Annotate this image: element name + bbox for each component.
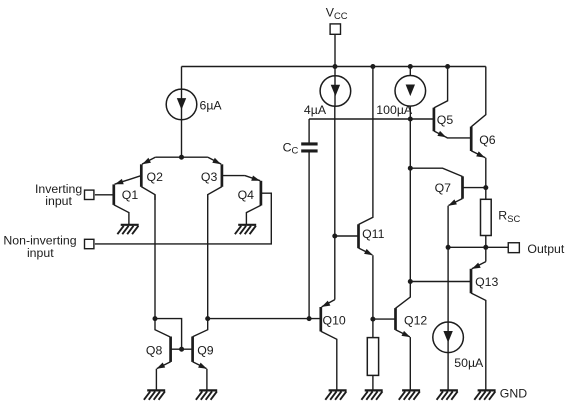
svg-text:Q7: Q7 [435,181,452,195]
svg-text:Output: Output [527,242,564,256]
svg-text:VCC: VCC [326,5,348,21]
wire top supply rail [182,66,486,68]
resistor R1 [367,338,378,376]
label Output [527,242,564,256]
svg-text:Q3: Q3 [201,170,218,184]
svg-text:100µA: 100µA [376,103,413,117]
transistor Q6 [471,67,496,200]
transistor Q10 [321,300,346,391]
wire Q8 Q9 base line [171,348,193,350]
wire resistor to ground [372,375,374,390]
transistor Q1 [114,176,142,225]
node Q9 collector junction [205,316,210,321]
label Non-inverting input [3,234,76,261]
svg-text:Q4: Q4 [238,188,255,202]
terminal Output [508,243,519,253]
wire Cc bottom to Q10 base [308,153,310,319]
svg-text:input: input [27,246,54,260]
wire Cc top [308,119,310,143]
terminal non-inverting input [85,239,94,248]
wire mirror to Q10 base [208,318,321,320]
current source I1 6uA [166,89,197,120]
label 4uA [304,103,327,117]
node Q8 collector junction [153,316,158,321]
wire rail to 6uA source [181,67,183,105]
resistor RSC [481,199,521,235]
svg-text:Q1: Q1 [122,188,139,202]
ground Q4 collector [235,225,256,234]
node 100uA base rail junction [408,117,413,122]
wire 100uA line [409,106,411,282]
wire 100uA top [409,67,411,77]
terminal inverting input [85,190,94,199]
wire Q8 collector to base [155,319,182,350]
transistor Q9 [193,319,214,391]
transistor Q7 [410,168,486,247]
svg-text:Q9: Q9 [197,343,214,357]
ground Q13 collector [474,390,495,399]
wire Q2 collector to Q8 [154,195,156,319]
node Q12 base junction [370,317,375,322]
node Cc bottom junction [307,316,312,321]
node Q7 emitter output junction [446,245,451,250]
svg-text:Q11: Q11 [362,227,384,241]
label 100uA [376,103,413,117]
wire non-inverting input to Q4 base [95,193,271,244]
svg-text:Q8: Q8 [146,343,163,357]
svg-text:input: input [45,194,72,208]
ground Q1 collector [117,225,138,234]
node input pair emitter junction [179,155,184,160]
transistor Q4 [222,176,261,225]
svg-text:Q13: Q13 [475,275,498,289]
power terminal VCC [326,5,348,34]
wire Q2 Q3 emitter rail [155,156,208,158]
svg-text:RSC: RSC [498,208,520,224]
wire output to 50uA [447,247,449,337]
wire output line [448,246,508,248]
transistor Q13 [410,247,498,390]
label Inverting input [35,182,82,208]
current source I3 100uA [395,76,426,107]
ground Q12 emitter [399,390,420,399]
wire Q5 base rail [309,118,434,120]
transistor Q11 [335,67,385,338]
ground Q8 emitter [144,390,165,399]
wire 50uA to ground [447,337,449,390]
node Q11 base junction [332,234,337,239]
svg-text:Q6: Q6 [479,133,496,147]
ground 50uA [437,390,458,399]
label 50uA [454,356,484,370]
node Q11 collector rail junction [370,64,375,69]
wire 6uA to input pair emitters [181,104,183,157]
svg-text:50µA: 50µA [454,356,484,370]
ground Q10 collector [325,390,346,399]
node VCC rail junction [333,64,338,69]
wire VCC to top rail [334,35,336,67]
wire Q3 collector to Q9 [207,195,209,319]
label GND [500,386,527,400]
wire Rsc to output line [485,236,487,248]
transistor Q8 [146,319,171,391]
transistor Q5 [434,67,471,138]
node Rsc output junction [483,245,488,250]
transistor Q12 [373,282,428,391]
capacitor CC [283,140,318,155]
svg-text:Q5: Q5 [437,113,454,127]
wire 4uA line [334,67,336,300]
transistor Q2 [141,157,163,200]
svg-text:Q12: Q12 [404,314,427,328]
wire inverting input to Q1 base [95,194,114,196]
current source I2 4uA [320,76,351,107]
ground Q9 emitter [196,390,217,399]
svg-text:Q2: Q2 [147,170,164,184]
transistor Q3 [201,157,222,200]
ground resistor [361,390,382,399]
current source I4 50uA [433,322,464,353]
node Q7 collector junction [408,166,413,171]
node Q5 collector rail junction [445,64,450,69]
svg-text:6µA: 6µA [200,98,223,112]
node Q13 base junction [408,279,413,284]
label 6uA [200,98,223,112]
svg-text:CC: CC [283,140,299,155]
svg-text:GND: GND [500,386,527,400]
svg-text:Q10: Q10 [323,313,346,327]
node 100uA rail junction [408,64,413,69]
node mirror base junction [179,347,184,352]
node Q7 base junction [483,185,488,190]
svg-text:4µA: 4µA [304,103,327,117]
